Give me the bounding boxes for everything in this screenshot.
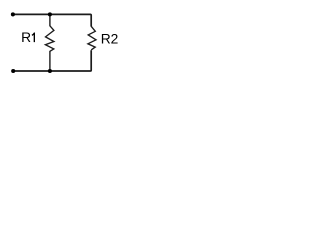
resistor R2 <box>88 26 96 50</box>
label R1 (digit 1) <box>32 33 35 43</box>
resistor R1 <box>45 26 54 52</box>
node: top-left terminal <box>11 12 15 16</box>
svg-text:R: R <box>21 30 31 45</box>
wire: top rail with corner to right branch <box>13 14 91 26</box>
node: bottom-left terminal <box>11 69 15 73</box>
svg-text:R2: R2 <box>101 31 119 46</box>
node: top junction <box>48 12 52 16</box>
wire: R1 bottom lead <box>49 51 51 71</box>
wire: bottom rail with corner to right branch <box>13 50 91 71</box>
wire: R1 top lead <box>49 14 51 26</box>
node: bottom junction <box>48 69 52 73</box>
